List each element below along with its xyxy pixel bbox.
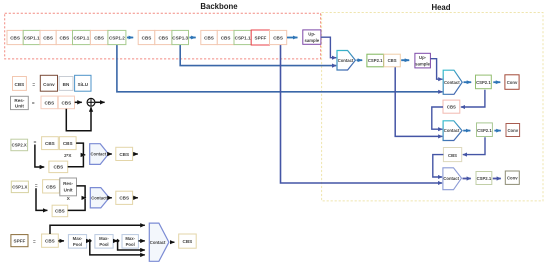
box CSP1.2 b7 — [108, 30, 126, 44]
svg-text:Pool: Pool — [99, 242, 108, 247]
wire CSP2.1 r3 down to CBS m2 — [463, 137, 485, 154]
junction after Max-Pool1 — [88, 239, 92, 243]
contact C2 — [443, 70, 462, 94]
wire csp2 top branch — [76, 143, 85, 155]
arrow CBS r1 to Up-sample2 — [401, 59, 409, 61]
arrow C2 out — [464, 81, 472, 83]
wire backbone CBS to Contact4 — [281, 45, 443, 183]
arrow C3 out — [463, 130, 470, 132]
svg-text:CSP1.3: CSP1.3 — [172, 36, 188, 41]
svg-text:CSP1.1: CSP1.1 — [73, 36, 89, 41]
box CBS ru2 — [58, 96, 74, 109]
svg-text:CBS: CBS — [45, 239, 55, 244]
box Up-sample 1 — [303, 30, 321, 44]
svg-text:Conv: Conv — [43, 82, 55, 87]
box CBS c2d — [116, 147, 133, 160]
box Res-Unit legend2 — [60, 178, 77, 196]
svg-text:Contact: Contact — [444, 128, 460, 133]
arrow backbone 3 — [287, 37, 298, 39]
box CSP1.3 b10 — [172, 30, 189, 44]
svg-text:2*X: 2*X — [64, 153, 72, 158]
box CSP2.1 r3 — [477, 123, 493, 137]
wire csp1 split down — [36, 188, 47, 210]
box CSP1.1 b5 — [73, 30, 91, 44]
svg-text:CBS: CBS — [45, 141, 55, 146]
svg-text:Head: Head — [431, 3, 450, 12]
svg-text:Pool: Pool — [126, 242, 135, 247]
wire CBS m1 to Contact3 — [432, 107, 443, 129]
legend row5: box SPFF — [11, 235, 28, 247]
wire spff bypass after mp1 — [90, 241, 145, 255]
svg-text:CBS: CBS — [221, 36, 231, 41]
box Conv r4 — [505, 171, 519, 184]
arrow csp1 contact out — [110, 197, 112, 199]
contact legend csp1 — [90, 188, 109, 208]
box CBS c2c — [49, 161, 68, 173]
svg-text:=: = — [34, 139, 37, 144]
box CBS sp2 — [179, 234, 197, 248]
svg-text:CBS: CBS — [46, 185, 56, 190]
svg-text:Conv: Conv — [507, 176, 518, 181]
svg-text:Pool: Pool — [73, 242, 82, 247]
box CBS b4 — [56, 30, 72, 44]
box CBS b11 — [201, 30, 218, 44]
box CBS b8 — [138, 30, 155, 44]
arrow spff contact out — [170, 241, 174, 243]
svg-text:Res-: Res- — [63, 181, 73, 186]
box Max-Pool 2 — [95, 235, 113, 249]
svg-text:CBS: CBS — [447, 105, 456, 110]
box CSP2.1 r4 — [476, 172, 492, 185]
box Conv r3 — [506, 124, 520, 137]
legend row4: box CSP1.X — [11, 181, 28, 193]
svg-text:CSP2.1: CSP2.1 — [477, 176, 492, 181]
wire Up-sample2 to Contact2 — [431, 59, 443, 79]
arrow CBS ru2 to plus — [75, 101, 82, 103]
box CBS c1c — [116, 191, 133, 204]
svg-text:Max-: Max- — [125, 236, 135, 241]
svg-text:CBS: CBS — [10, 36, 20, 41]
svg-text:Up-: Up- — [308, 32, 316, 37]
box BN — [59, 77, 73, 91]
box CBS b12 — [217, 30, 234, 44]
svg-text:BN: BN — [63, 82, 70, 87]
box CSP1.1 b2 — [23, 30, 40, 44]
svg-text:=: = — [35, 183, 38, 188]
svg-text:CSP2.1: CSP2.1 — [476, 80, 491, 85]
plus junction circle — [87, 98, 95, 106]
backbone dashed frame — [5, 13, 321, 59]
svg-text:CBS: CBS — [53, 165, 63, 170]
svg-text:=: = — [32, 82, 35, 87]
svg-text:SPFF: SPFF — [255, 36, 267, 41]
svg-text:Contact: Contact — [338, 58, 354, 63]
box CBS sp1 — [42, 234, 59, 247]
box CBS b6 — [90, 30, 108, 44]
box SiLU — [75, 75, 91, 91]
svg-text:=: = — [33, 239, 36, 244]
svg-text:SiLU: SiLU — [78, 82, 89, 87]
svg-text:CBS: CBS — [119, 196, 129, 201]
wire res skip — [66, 107, 91, 131]
wire spff bypass after mp2 — [118, 241, 145, 250]
arrow C1 out — [357, 59, 363, 61]
svg-text:Backbone: Backbone — [200, 2, 238, 11]
svg-text:CSP2.1: CSP2.1 — [368, 58, 383, 63]
svg-text:CBS: CBS — [61, 100, 71, 105]
svg-text:SPFF: SPFF — [14, 239, 26, 244]
svg-text:CBS: CBS — [94, 36, 104, 41]
legend row3: box CSP2.X — [11, 139, 28, 151]
arrow mp2 to mp3 — [113, 240, 118, 242]
box CBS c1a — [43, 180, 60, 193]
svg-text:CSP1.1: CSP1.1 — [235, 36, 251, 41]
legend row1: box CBS — [13, 77, 27, 91]
box Conv legend — [40, 75, 57, 91]
box Max-Pool 3 — [122, 235, 138, 249]
box SPFF b14 — [251, 30, 269, 45]
svg-text:CSP2.1: CSP2.1 — [477, 128, 492, 133]
wire csp1 top branch — [77, 186, 87, 198]
svg-text:CBS: CBS — [388, 58, 397, 63]
svg-text:Contact: Contact — [91, 195, 107, 200]
svg-text:CBS: CBS — [142, 36, 152, 41]
svg-text:Max-: Max- — [73, 236, 83, 241]
svg-text:CBS: CBS — [43, 36, 53, 41]
svg-text:CBS: CBS — [44, 100, 54, 105]
svg-text:CBS: CBS — [204, 36, 214, 41]
box CBS b15 — [270, 30, 287, 44]
box CBS m2 — [443, 148, 461, 162]
svg-text:Contact: Contact — [443, 176, 459, 181]
arrow CSP2.1 r3 to Conv — [494, 130, 500, 132]
svg-text:CBS: CBS — [63, 141, 73, 146]
svg-text:Up-: Up- — [419, 55, 427, 60]
arrow backbone 1 — [127, 37, 133, 39]
box CBS b1 — [7, 30, 23, 44]
arrow C4 out — [463, 178, 471, 180]
box CBS b9 — [155, 30, 172, 44]
wire CSP1.3 to Contact1 — [180, 45, 336, 66]
arrow csp2 final out — [133, 153, 138, 155]
box CBS r1 — [384, 54, 400, 67]
svg-text:CBS: CBS — [119, 152, 129, 157]
svg-text:CBS: CBS — [59, 36, 69, 41]
arrow backbone 2 — [190, 37, 196, 39]
head dashed frame — [322, 13, 543, 201]
box Conv r2 — [505, 75, 519, 90]
box CBS c1b — [52, 205, 68, 217]
svg-text:Contact: Contact — [444, 80, 460, 85]
contact spff — [149, 223, 169, 261]
svg-text:CBS: CBS — [273, 36, 283, 41]
box CBS c2b — [59, 137, 76, 150]
wire csp1 bottom branch — [68, 199, 85, 210]
svg-text:Unit: Unit — [64, 188, 73, 193]
box CSP2.1 r2 — [476, 75, 492, 89]
box CSP1.1 b13 — [234, 30, 251, 44]
svg-text:CBS: CBS — [448, 153, 457, 158]
wire csp2 split down — [35, 145, 44, 168]
svg-text:CBS: CBS — [183, 239, 193, 244]
svg-text:CSP2.X: CSP2.X — [12, 143, 27, 148]
arrow spff cbs to mp1 — [58, 240, 64, 242]
svg-text:Contact: Contact — [91, 152, 107, 157]
wire head CBS row1 to Contact3 — [395, 67, 442, 136]
arrow CSP2.1 r2 to Conv — [493, 81, 500, 83]
svg-text:CBS: CBS — [15, 82, 25, 87]
svg-text:Contact: Contact — [150, 240, 166, 245]
svg-text:Unit: Unit — [15, 104, 24, 109]
wire Up-sample1 to Contact1 — [321, 37, 336, 58]
arrow csp2 contact out — [110, 153, 112, 155]
junction after Max-Pool2 — [115, 239, 119, 243]
wire CSP1.2 to Contact2 — [117, 45, 443, 92]
svg-text:CSP1.2: CSP1.2 — [109, 36, 125, 41]
box CBS ru1 — [41, 96, 58, 109]
contact C3 — [443, 121, 462, 141]
box CSP2.1 r1 — [367, 54, 384, 67]
svg-text:=: = — [32, 101, 35, 106]
contact legend csp2 — [90, 144, 109, 165]
svg-text:CBS: CBS — [55, 209, 65, 214]
arrow CSP2.1 r4 to Conv — [493, 178, 501, 180]
svg-text:Max-: Max- — [99, 236, 109, 241]
wire CBS m2 to Contact4 — [433, 155, 444, 177]
svg-text:Conv: Conv — [507, 128, 518, 133]
box CBS m1 — [443, 100, 460, 113]
box Up-sample 2 — [415, 53, 431, 68]
svg-text:CSP1.X: CSP1.X — [12, 185, 27, 190]
arrow csp1 final out — [133, 197, 138, 199]
svg-text:sample: sample — [304, 38, 319, 43]
arrow mp3 to contact — [138, 240, 144, 242]
box CBS c2a — [42, 137, 59, 150]
wire CSP2.1 r2 down to CBS m1 — [461, 90, 485, 107]
box Max-Pool 1 — [68, 235, 86, 249]
arrow plus out — [95, 101, 105, 103]
box CBS b3 — [40, 30, 56, 44]
contact C4 — [443, 168, 462, 190]
arrow mp1 to mp2 — [87, 240, 91, 242]
wire csp2 bottom branch — [68, 156, 84, 167]
svg-text:sample: sample — [415, 61, 430, 66]
svg-text:Res-: Res- — [14, 98, 24, 103]
wire spff top bypass — [50, 225, 145, 234]
svg-text:CSP1.1: CSP1.1 — [24, 36, 40, 41]
contact C1 — [337, 51, 355, 71]
svg-text:CBS: CBS — [158, 36, 168, 41]
svg-text:Conv: Conv — [507, 80, 518, 85]
legend row2: box Res-Unit — [11, 96, 29, 109]
